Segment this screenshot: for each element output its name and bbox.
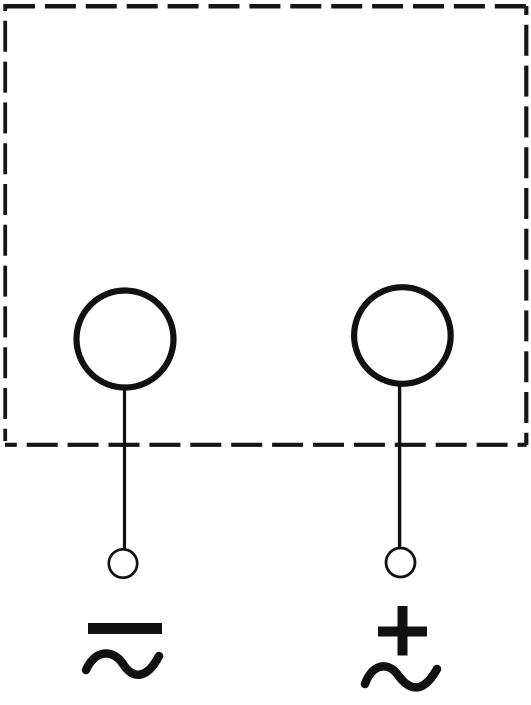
AC tilde mark right [365,666,437,687]
wire (right lead) [398,385,401,548]
pin circle left (terminal pin) [109,549,137,577]
terminal circle left (negative terminal) [77,291,174,388]
enclosure dashed outline (left edge) [3,4,7,441]
enclosure dashed outline (top edge) [4,4,528,9]
terminal circle right (positive terminal) [354,287,451,384]
wire (left lead) [123,389,126,550]
pin circle right (terminal pin) [386,548,415,577]
AC tilde mark left [86,653,159,674]
enclosure dashed outline (bottom edge) [5,443,527,447]
plus polarity mark [378,606,427,656]
minus polarity mark [88,623,162,634]
enclosure dashed outline (right edge) [524,6,528,445]
